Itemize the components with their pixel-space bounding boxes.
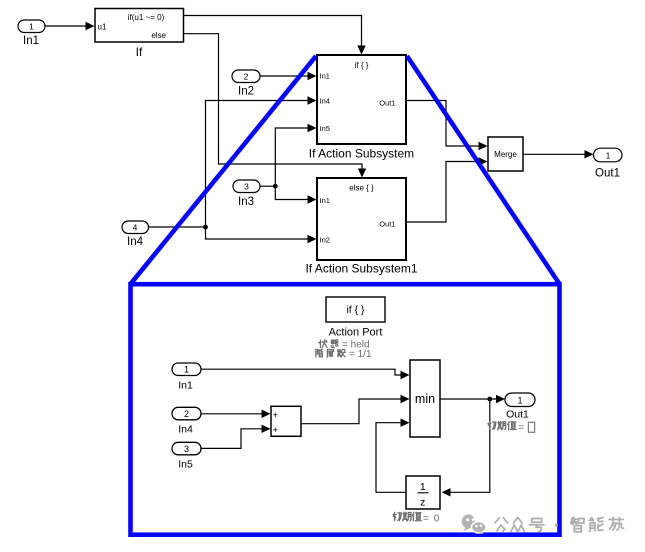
- wire subsystem Out1 to Merge input1: [406, 101, 488, 151]
- Merge block: [488, 137, 523, 171]
- svg-text:Out1: Out1: [506, 409, 529, 421]
- If Action Subsystem1 block: [305, 178, 417, 276]
- svg-text:Out1: Out1: [379, 220, 395, 229]
- outport Out1 (detail): [505, 393, 535, 421]
- svg-text:In5: In5: [320, 124, 330, 133]
- wire If if-output to If Action Subsystem top: [184, 16, 366, 55]
- annotation state held: [318, 340, 369, 351]
- svg-text:In3: In3: [238, 196, 254, 208]
- svg-text:If Action Subsystem: If Action Subsystem: [309, 147, 414, 161]
- svg-text:Merge: Merge: [494, 150, 517, 159]
- svg-text:Out1: Out1: [379, 99, 395, 108]
- svg-text:In4: In4: [178, 424, 193, 436]
- svg-text:1: 1: [517, 395, 522, 405]
- wire subsystem1 Out1 to Merge input2: [406, 157, 488, 222]
- wire In5 to sum input2: [201, 425, 271, 449]
- svg-text:In2: In2: [238, 86, 254, 98]
- annotation initial value []: [488, 422, 535, 434]
- outport Out1: [594, 148, 623, 179]
- svg-text:else { }: else { }: [349, 184, 374, 193]
- svg-text:3: 3: [244, 182, 249, 192]
- svg-text:Action Port: Action Port: [329, 327, 383, 339]
- svg-text:+: +: [273, 425, 279, 436]
- svg-text:if { }: if { }: [355, 61, 369, 70]
- watermark text gongzhonghao zhinengyuan: [495, 517, 624, 531]
- wire In4 to sum input1: [201, 410, 271, 418]
- inport In3: [233, 180, 260, 208]
- blue callout rectangle: [131, 284, 560, 535]
- wire sum to min input2: [301, 395, 410, 424]
- svg-text:1: 1: [184, 365, 189, 375]
- svg-text:1: 1: [29, 22, 34, 32]
- inport In1 (detail): [172, 363, 201, 392]
- inport In2: [232, 70, 260, 98]
- svg-text:if { }: if { }: [346, 304, 365, 316]
- svg-text:4: 4: [133, 223, 138, 233]
- wire In1 to min input1: [201, 369, 410, 379]
- wire min output to Out1: [440, 395, 505, 403]
- svg-text:if(u1 ~= 0): if(u1 ~= 0): [128, 13, 165, 22]
- Action Port block: [326, 297, 385, 339]
- inport In4: [122, 221, 149, 248]
- sum block: [271, 406, 301, 436]
- svg-text:min: min: [415, 392, 435, 406]
- wire In3 junction down to subsystem1 In1: [275, 186, 316, 204]
- svg-text:=: =: [423, 514, 429, 525]
- inport In1: [18, 20, 45, 47]
- svg-text:=: =: [518, 423, 524, 434]
- svg-text:= 1/1: = 1/1: [349, 349, 372, 360]
- junction node In4: [203, 225, 208, 230]
- blue callout left diagonal: [131, 56, 317, 284]
- min block: [410, 360, 440, 437]
- svg-text:+: +: [273, 410, 279, 421]
- svg-text:u1: u1: [98, 23, 107, 32]
- svg-text:In4: In4: [320, 97, 330, 106]
- svg-text:0: 0: [434, 514, 440, 525]
- svg-text:In1: In1: [23, 35, 39, 47]
- wire In3 junction up to subsystem In5: [275, 124, 316, 186]
- If Action Subsystem block: [309, 55, 414, 161]
- watermark logo bubbles: [462, 514, 486, 534]
- svg-text:z: z: [420, 497, 425, 509]
- wire In2 to subsystem In1: [260, 72, 317, 80]
- svg-text:1: 1: [420, 481, 426, 493]
- svg-text:In1: In1: [178, 380, 193, 392]
- wire junction down to unit delay input: [442, 399, 490, 496]
- wire If else-output to If Action Subsystem1 top: [184, 34, 367, 178]
- inport In5 (detail): [172, 442, 201, 470]
- wire Merge to Out1: [523, 150, 594, 158]
- wire unit delay output to min input3: [376, 419, 410, 493]
- svg-text:3: 3: [184, 444, 189, 454]
- svg-text:2: 2: [244, 72, 249, 82]
- wire In3 to junction: [260, 185, 275, 187]
- svg-text:In4: In4: [127, 236, 144, 248]
- svg-text:In1: In1: [320, 72, 330, 81]
- wire In1 to If: [45, 22, 95, 30]
- svg-text:In1: In1: [320, 196, 330, 205]
- svg-text:If Action Subsystem1: If Action Subsystem1: [305, 262, 417, 276]
- junction node min output: [487, 397, 492, 402]
- unit delay block: [406, 476, 440, 509]
- svg-text:In5: In5: [178, 459, 193, 471]
- annotation layer 1/1: [316, 349, 372, 360]
- svg-text:1: 1: [606, 150, 611, 160]
- blue callout right diagonal: [407, 56, 560, 284]
- svg-text:If: If: [136, 45, 143, 59]
- wire In4 junction down to subsystem1 In2: [206, 227, 317, 243]
- svg-text:else: else: [151, 31, 166, 40]
- inport In4 (detail): [172, 407, 201, 435]
- annotation initial value 0: [393, 512, 440, 524]
- junction node In3: [273, 184, 278, 189]
- If block: [95, 9, 184, 60]
- svg-text:In2: In2: [320, 236, 330, 245]
- svg-text:2: 2: [184, 409, 189, 419]
- svg-text:Out1: Out1: [595, 168, 620, 180]
- wire In4 junction up to subsystem In4: [206, 96, 317, 227]
- wire In4 to junction: [149, 226, 206, 228]
